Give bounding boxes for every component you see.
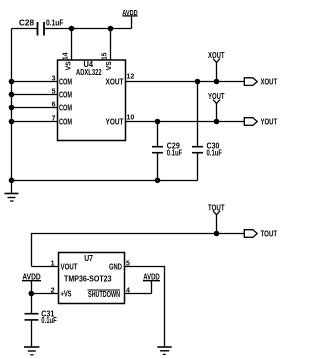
value 0.1uF (C28) xyxy=(46,18,64,27)
pin name COM (pin 5) xyxy=(59,90,72,99)
svg-text:YOUT: YOUT xyxy=(261,117,278,126)
svg-text:10: 10 xyxy=(127,115,135,122)
capacitor C30 xyxy=(192,82,203,181)
svg-text:XOUT: XOUT xyxy=(261,77,278,86)
test point XOUT xyxy=(208,51,225,82)
pin number 15 xyxy=(101,52,108,60)
pin number 5 xyxy=(52,89,56,96)
power AVDD (top) xyxy=(122,10,138,29)
junction: C30 tap on XOUT xyxy=(195,79,201,85)
value 0.1uF (C31) xyxy=(41,316,57,325)
svg-text:SHUTDOWN: SHUTDOWN xyxy=(88,290,120,299)
label C31 xyxy=(41,310,54,319)
pin name +VS (pin 2) xyxy=(61,289,72,298)
wire: ground return rail xyxy=(12,180,198,182)
power AVDD (U7 pin 2, left) xyxy=(22,272,41,293)
pin number 5 xyxy=(126,261,130,268)
pin number 10 xyxy=(127,115,135,122)
refdes U7 xyxy=(84,254,93,263)
svg-text:6: 6 xyxy=(52,102,56,109)
svg-text:VOUT: VOUT xyxy=(61,262,78,271)
power AVDD (U7 pin 4) xyxy=(143,273,160,294)
svg-text:VS: VS xyxy=(106,61,113,70)
wire: pin 14 drop to U4 xyxy=(71,29,73,61)
svg-text:YOUT: YOUT xyxy=(106,117,124,126)
wire: pin 2 to AVDD/C31 xyxy=(32,293,59,295)
op-amp U4 body (ADXL322 accelerometer) xyxy=(58,60,126,141)
wire: top supply rail from left rail corner to AVDD drop xyxy=(12,28,132,30)
svg-text:COM: COM xyxy=(59,77,72,86)
junction: left rail to ground rail xyxy=(9,178,15,184)
svg-text:0.1uF: 0.1uF xyxy=(167,148,183,157)
svg-text:0.1uF: 0.1uF xyxy=(41,316,57,325)
svg-text:1: 1 xyxy=(51,261,55,268)
wire: XOUT net from pin 12 to output tag xyxy=(125,81,244,83)
svg-text:TOUT: TOUT xyxy=(261,229,278,238)
value ADXL322 xyxy=(76,68,102,77)
junction: XOUT test point tap xyxy=(214,79,220,85)
value 0.1uF (C30) xyxy=(207,148,223,157)
junction: C31 tap xyxy=(29,291,35,297)
pin name COM (pin 7) xyxy=(59,117,72,126)
junction on left rail at pin 7 xyxy=(9,119,15,125)
pin name VS (pin 14) xyxy=(66,61,73,70)
transistor U7 body (TMP36 temperature sensor) xyxy=(59,253,125,304)
output tag YOUT xyxy=(244,117,277,126)
svg-text:VS: VS xyxy=(66,61,73,70)
label C28 xyxy=(19,18,35,27)
pin name XOUT (pin 12) xyxy=(106,77,124,86)
wire: COM pin 7 xyxy=(12,121,58,123)
pin number 4 xyxy=(126,287,130,294)
junction on left rail at pin 3 xyxy=(9,79,15,85)
pin number 12 xyxy=(127,74,135,81)
svg-text:5: 5 xyxy=(52,89,56,96)
ground (left rail) xyxy=(5,194,19,202)
svg-text:XOUT: XOUT xyxy=(106,77,124,86)
pin number 14 xyxy=(63,52,70,60)
junction: C29 tap on YOUT xyxy=(155,119,161,125)
test point YOUT xyxy=(208,92,225,122)
svg-text:XOUT: XOUT xyxy=(208,51,225,60)
pin name VS (pin 15) xyxy=(106,61,113,70)
svg-text:GND: GND xyxy=(109,262,122,271)
wire: pin 5 GND to ground xyxy=(125,267,165,347)
pin name COM (pin 6) xyxy=(59,103,72,112)
svg-text:COM: COM xyxy=(59,103,72,112)
svg-text:COM: COM xyxy=(59,117,72,126)
svg-text:14: 14 xyxy=(63,52,70,60)
ground (U7 pin 5) xyxy=(157,347,171,354)
svg-text:TOUT: TOUT xyxy=(208,203,225,212)
pin number 3 xyxy=(52,76,56,83)
output tag XOUT xyxy=(244,77,277,86)
pin name SHUTDOWN (pin 4, active low) xyxy=(88,290,121,299)
junction: pin15 tap on supply rail xyxy=(108,26,114,32)
junction: pin14 tap on supply rail xyxy=(69,26,75,32)
refdes U4 xyxy=(84,60,94,69)
wire: left COM rail xyxy=(11,29,13,194)
pin name YOUT (pin 10) xyxy=(106,117,124,126)
svg-text:3: 3 xyxy=(52,76,56,83)
pin number 1 xyxy=(51,261,55,268)
svg-text:7: 7 xyxy=(52,116,56,123)
pin number 6 xyxy=(52,102,56,109)
pin number 7 xyxy=(52,116,56,123)
svg-text:COM: COM xyxy=(59,90,72,99)
capacitor C31 xyxy=(25,294,39,347)
wire: TOUT net from U7 VOUT to output tag xyxy=(32,234,245,267)
svg-text:15: 15 xyxy=(101,52,108,60)
ground (C31) xyxy=(24,347,39,355)
svg-text:12: 12 xyxy=(127,74,135,81)
junction: TOUT test point tap xyxy=(214,231,220,237)
junction: YOUT test point tap xyxy=(214,119,220,125)
value 0.1uF (C29) xyxy=(167,148,183,157)
pin number 2 xyxy=(51,287,55,294)
pin name VOUT (pin 1) xyxy=(61,262,78,271)
svg-text:U7: U7 xyxy=(84,254,93,263)
capacitor C29 xyxy=(152,122,163,181)
wire: pin 4 to AVDD xyxy=(125,293,152,295)
svg-text:+VS: +VS xyxy=(61,289,72,298)
pin name COM (pin 3) xyxy=(59,77,72,86)
value TMP36-SOT23 xyxy=(64,275,112,284)
label C29 xyxy=(167,142,180,151)
capacitor C28 xyxy=(38,22,45,36)
label C30 xyxy=(207,142,220,151)
svg-text:ADXL322: ADXL322 xyxy=(76,68,102,77)
junction: C29 to ground rail xyxy=(155,178,161,184)
pin name GND (pin 5) xyxy=(109,262,122,271)
svg-text:0.1uF: 0.1uF xyxy=(207,148,223,157)
wire: YOUT net from pin 10 to output tag xyxy=(125,121,244,123)
wire: COM pin 6 xyxy=(12,107,58,109)
svg-text:0.1uF: 0.1uF xyxy=(46,18,64,27)
svg-text:C28: C28 xyxy=(19,18,35,27)
output tag TOUT xyxy=(244,229,277,238)
svg-text:YOUT: YOUT xyxy=(208,92,225,101)
wire: COM pin 3 xyxy=(12,81,58,83)
wire: pin 15 drop to U4 xyxy=(110,29,112,61)
svg-text:AVDD: AVDD xyxy=(22,272,40,281)
wire: COM pin 5 xyxy=(12,94,58,96)
junction on left rail at pin 5 xyxy=(9,92,15,98)
junction on left rail at pin 6 xyxy=(9,105,15,111)
test point TOUT xyxy=(208,203,225,233)
svg-text:TMP36-SOT23: TMP36-SOT23 xyxy=(64,275,112,284)
